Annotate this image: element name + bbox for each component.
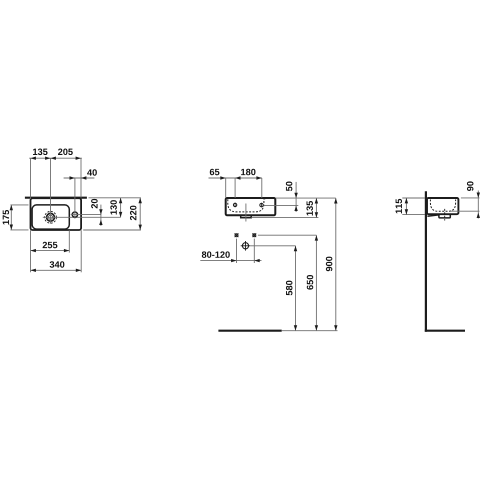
washbasin body (side view) (427, 198, 458, 214)
label 255 (43, 242, 58, 249)
arrowheads 80-120 (231, 259, 236, 262)
tap hole circle (plan view) (72, 212, 77, 217)
wall line (side view) (425, 191, 427, 331)
label 220 (130, 206, 137, 221)
left fixing hole symbol (235, 233, 239, 237)
hidden bowl outline dashed (side view) (430, 200, 455, 212)
dimension 650 line (315, 235, 317, 330)
washbasin outer body (plan view) (31, 198, 82, 230)
extension line basin right edge to top dim (80, 158, 82, 198)
extension line basin left edge up (225, 178, 227, 198)
wall line (plan view) (25, 197, 87, 199)
drain horizontal centerline (43, 216, 121, 218)
connector line fixing holes to 650 dim (258, 234, 317, 236)
floor line (front view) (218, 330, 281, 332)
drain vertical centerline (50, 158, 52, 223)
dimension 580 line (295, 246, 297, 331)
arrowheads 65/180 (220, 176, 225, 179)
dimension 340 line (plan bottom) (31, 269, 82, 271)
label 90 (467, 181, 474, 191)
left tap hole symbol (front view) (233, 203, 236, 206)
extension line tap hole level right (264, 205, 299, 207)
dimension 65-180 line (front top) (209, 177, 262, 179)
arrowheads 255 (31, 249, 36, 252)
floor extension line (front view) (282, 330, 338, 332)
label 40 (87, 169, 97, 176)
arrowheads 50 (294, 193, 297, 198)
label 580 (286, 281, 293, 296)
dimension 90 line (477, 191, 479, 219)
apron wedge under basin (side view) (427, 215, 439, 217)
drain trap (side view) (439, 214, 450, 218)
drain outer dashed circle (45, 211, 57, 223)
dimension 115 line (405, 198, 407, 215)
arrowheads 135 front (315, 198, 318, 203)
extension line wall level to right dims (89, 197, 141, 199)
extension line basin bottom left (side) (402, 214, 425, 216)
extension line bowl bottom right (side) (451, 210, 480, 212)
arrowheads 115 (405, 198, 408, 203)
arrowheads 40 (70, 176, 75, 179)
dimension 80-120 line (200, 260, 261, 262)
arrowheads 220 (139, 198, 142, 203)
label 900 (326, 257, 333, 272)
dimension 220 line (plan right) (139, 198, 141, 230)
label 65 (210, 169, 220, 176)
dimension 135-205 line (plan top) (29, 157, 82, 159)
label 650 (307, 275, 314, 290)
label 130 (110, 200, 117, 214)
label 135 (33, 149, 48, 156)
extension line basin right edge down (80, 230, 82, 272)
label 205 (58, 149, 73, 156)
arrowheads 135/205 (31, 157, 36, 160)
dimension 130 line (plan right) (120, 198, 122, 218)
arrowheads 130 (119, 198, 122, 203)
extension line right fixing hole down (253, 239, 255, 263)
right fixing hole symbol (252, 233, 256, 237)
label 175 (3, 210, 9, 225)
right tap hole symbol (front view) (260, 203, 263, 206)
connector line waste outlet to 580 dim (251, 245, 296, 247)
dimension 900 line (335, 198, 337, 331)
extension line bowl right edge down (68, 230, 70, 252)
hidden bowl outline dashed (front view) (228, 199, 266, 212)
arrowheads 650 (315, 235, 318, 240)
drain outlet (front view) (241, 215, 252, 217)
extension line drain bottom right (251, 217, 318, 219)
extension line rim level left (side) (402, 197, 425, 199)
arrowheads 900 (334, 198, 337, 203)
dimension 40 line (64, 177, 95, 179)
dimension 255 line (plan bottom) (31, 250, 70, 252)
dimension 175 line (plan left) (10, 205, 12, 230)
drain dashed centerline (side view) (444, 209, 446, 221)
tap hole horizontal tick / 20-dim line start (71, 214, 102, 216)
connector line rim to 900 dim (276, 197, 336, 199)
dimension 135 line (front right) (315, 198, 317, 218)
arrowheads 340 (31, 269, 36, 272)
extension line basin left edge to top dim (30, 158, 32, 199)
dimension 20 line (plan right) (100, 205, 102, 226)
extension line right tap hole up (261, 178, 263, 198)
extension line basin front to right dims (83, 229, 141, 231)
drain bold circle (47, 213, 55, 221)
washbasin body (front view) (226, 198, 276, 215)
arrowheads 90 (477, 193, 480, 198)
arrowheads 580 (294, 246, 297, 251)
waste outlet target symbol (241, 241, 251, 251)
floor line (side view) (425, 330, 465, 332)
extension line rim level right (side) (461, 197, 480, 199)
label 115 (396, 199, 402, 214)
label 50 (286, 182, 293, 192)
dimension 50 line (front right) (295, 182, 297, 212)
label 135 front (306, 201, 313, 216)
drain inner circle (49, 215, 53, 219)
tap hole vertical extension line (74, 178, 76, 219)
label 340 (50, 261, 65, 268)
label 20 (91, 199, 98, 209)
arrowheads 175 (10, 205, 13, 210)
label 180 (241, 169, 255, 176)
arrowheads 20 (99, 209, 102, 214)
label 80-120 (202, 251, 230, 258)
inner bowl (plan view) (32, 205, 69, 229)
drain centerline (front view) (245, 204, 247, 222)
extension line left fixing hole down (236, 239, 238, 263)
extension lines 175 (10, 204, 28, 206)
extension line left tap hole up (234, 178, 236, 198)
extension line basin left edge down (30, 230, 32, 272)
